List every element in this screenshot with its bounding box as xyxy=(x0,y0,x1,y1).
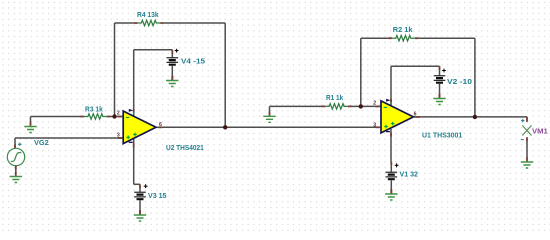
battery V2 -10 xyxy=(434,66,472,98)
battery V1 32 xyxy=(386,162,419,194)
svg-text:6: 6 xyxy=(414,111,417,117)
svg-text:VM1: VM1 xyxy=(532,127,548,136)
ground under VG2 xyxy=(10,172,22,183)
V- pin stub U1 xyxy=(390,133,392,137)
output stub U1 xyxy=(414,116,416,118)
wire ground to R3 xyxy=(31,116,82,118)
wire feedback2 left vertical xyxy=(360,38,362,106)
wire feedback2 right vertical xyxy=(474,38,476,117)
VM1 plus terminal mark xyxy=(521,119,524,122)
pin3 stub U1 xyxy=(376,126,380,128)
wire U1 output xyxy=(413,116,527,118)
pin2 stub U2 xyxy=(118,116,122,118)
wire feedback top left xyxy=(115,22,134,24)
svg-text:R4 13k: R4 13k xyxy=(137,10,159,19)
svg-text:U2 THS4021: U2 THS4021 xyxy=(166,143,204,152)
ground stub R3 input xyxy=(30,117,32,123)
battery V4 -15 xyxy=(167,49,206,80)
ground at R1 input xyxy=(263,112,275,123)
junction node A xyxy=(112,114,116,118)
wire V2 vertical to U1 V+ pin xyxy=(390,66,392,105)
svg-text:R1 1k: R1 1k xyxy=(326,93,344,102)
wire V2 horizontal xyxy=(391,65,440,67)
wire V4 horizontal xyxy=(134,49,173,51)
V+ pin stub U2 xyxy=(133,109,135,112)
wire ground to R1 xyxy=(270,105,323,107)
wire R3 to node A xyxy=(110,116,115,118)
svg-text:2: 2 xyxy=(373,101,376,107)
svg-text:3: 3 xyxy=(373,122,376,128)
resistor R3 1k xyxy=(80,104,110,119)
ground under VM1 xyxy=(521,157,533,168)
wire feedback right vertical xyxy=(224,23,226,127)
V- pin stub U2 xyxy=(133,143,135,147)
wire V4 vertical to U2 V+ pin xyxy=(133,50,135,116)
V+ pin stub U1 xyxy=(390,99,392,102)
ground at R3 input xyxy=(24,122,36,133)
pin2 stub U1 xyxy=(376,105,380,107)
ground under V1 xyxy=(385,189,397,200)
resistor R4 13k xyxy=(134,10,164,26)
svg-text:V2 -10: V2 -10 xyxy=(447,77,472,86)
resistor R1 1k xyxy=(322,93,352,109)
svg-text:V1 32: V1 32 xyxy=(400,170,419,179)
wire feedback2 top left xyxy=(361,37,389,39)
junction U1 output node xyxy=(473,115,477,119)
junction U2 output node xyxy=(223,125,227,129)
voltage source VG2 xyxy=(7,138,24,173)
svg-text:VG2: VG2 xyxy=(34,138,49,147)
svg-text:V3 15: V3 15 xyxy=(148,191,167,200)
pin3 stub U2 xyxy=(118,137,122,139)
wire node A to U2 pin2 xyxy=(115,116,124,118)
wire jog to V3 xyxy=(134,183,140,185)
wire U2 output xyxy=(156,126,381,128)
svg-text:R2 1k: R2 1k xyxy=(393,25,414,34)
ground under V3 xyxy=(134,210,146,221)
VM1 minus terminal mark xyxy=(521,139,524,141)
svg-text:R3 1k: R3 1k xyxy=(85,104,104,113)
svg-text:2: 2 xyxy=(117,111,120,117)
VG2 plus terminal mark xyxy=(18,143,21,146)
op-amp U2 THS4021 xyxy=(123,109,156,144)
ground under V2 xyxy=(433,94,445,105)
svg-text:V4 -15: V4 -15 xyxy=(181,56,205,65)
svg-text:U1 THS3001: U1 THS3001 xyxy=(422,130,462,139)
battery V3 15 xyxy=(134,184,166,214)
wire VG2 to U2 pin3 xyxy=(15,137,124,139)
ground under V4 xyxy=(166,76,178,87)
wire node B to U1 pin2 xyxy=(361,105,382,107)
svg-text:6: 6 xyxy=(159,122,162,128)
wire feedback top right xyxy=(164,22,225,24)
output stub U2 xyxy=(156,126,158,128)
junction node B xyxy=(359,104,363,108)
op-amp U1 THS3001 xyxy=(381,99,413,133)
wire U1 V- pin to V1 xyxy=(390,129,392,162)
voltmeter VM1 xyxy=(522,117,531,158)
wire feedback2 top right xyxy=(418,37,475,39)
wire feedback left vertical xyxy=(114,23,116,117)
wire R1 to node B xyxy=(351,105,361,107)
resistor R2 1k xyxy=(388,25,418,41)
svg-text:3: 3 xyxy=(117,132,120,138)
ground stub R1 input xyxy=(269,106,271,111)
wire U2 V- pin to V3 xyxy=(133,139,135,184)
